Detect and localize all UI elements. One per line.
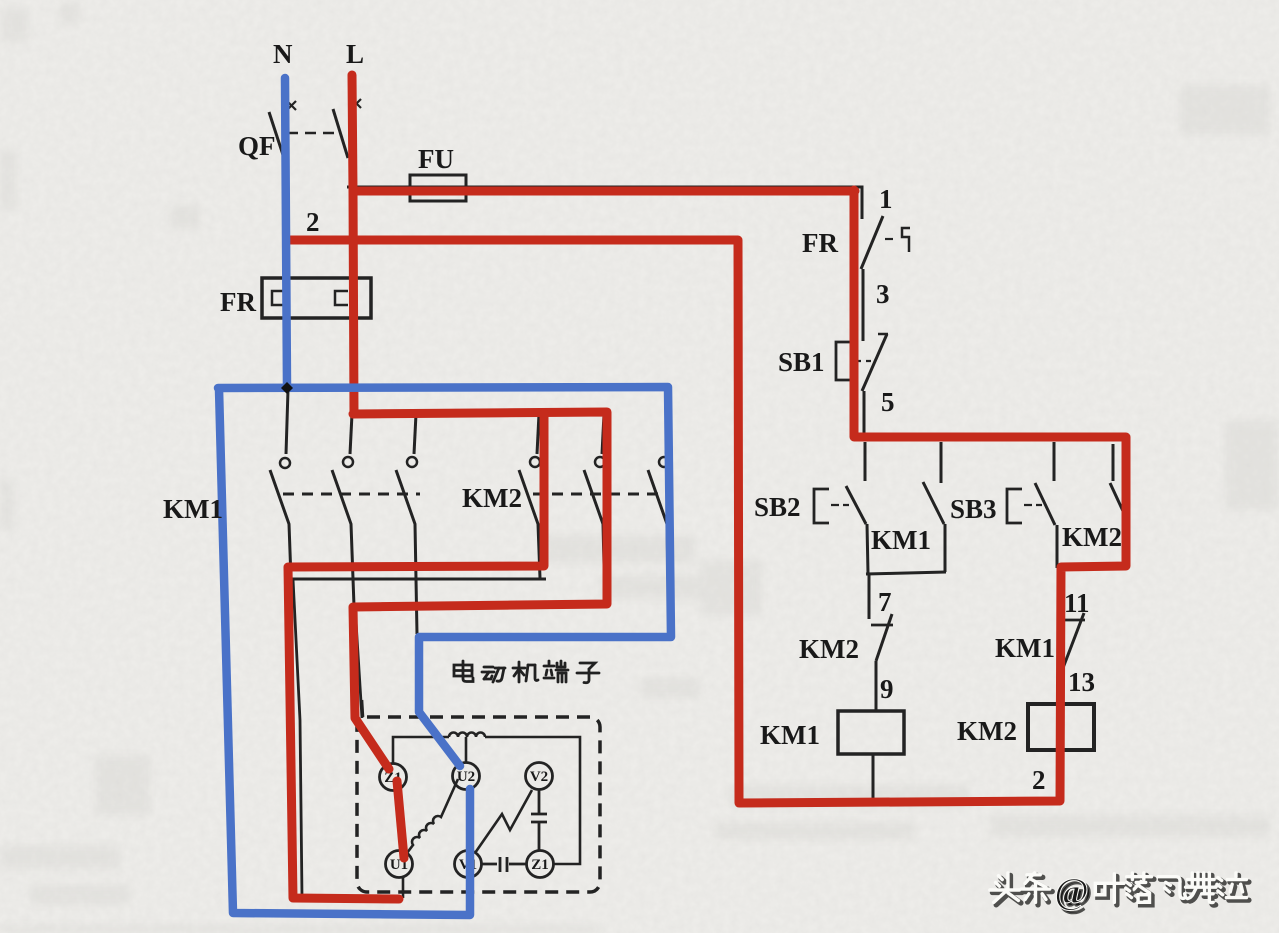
svg-text:9: 9 (880, 674, 894, 704)
svg-text:KM2: KM2 (957, 716, 1017, 746)
svg-text:QF: QF (238, 131, 276, 161)
svg-text:KM1: KM1 (760, 720, 820, 750)
svg-text:3: 3 (876, 279, 890, 309)
svg-text:KM2: KM2 (799, 634, 859, 664)
svg-text:2: 2 (1032, 765, 1046, 795)
svg-text:5: 5 (881, 387, 895, 417)
svg-text:KM2: KM2 (1062, 522, 1122, 552)
svg-text:SB1: SB1 (778, 347, 825, 377)
svg-text:2: 2 (306, 207, 320, 237)
svg-text:U2: U2 (457, 769, 475, 785)
svg-text:@: @ (1055, 872, 1089, 913)
svg-text:KM1: KM1 (163, 494, 223, 524)
svg-text:1: 1 (879, 184, 893, 214)
svg-text:SB2: SB2 (754, 492, 801, 522)
svg-text:KM1: KM1 (995, 633, 1055, 663)
svg-text:KM2: KM2 (462, 483, 522, 513)
svg-text:KM1: KM1 (871, 525, 931, 555)
svg-text:N: N (273, 39, 293, 69)
svg-text:13: 13 (1068, 667, 1095, 697)
svg-text:L: L (346, 39, 364, 69)
svg-text:Z1: Z1 (531, 857, 549, 873)
svg-text:FR: FR (220, 287, 256, 317)
svg-text:11: 11 (1064, 588, 1090, 618)
svg-text:FR: FR (802, 228, 838, 258)
svg-text:SB3: SB3 (950, 494, 997, 524)
svg-text:V2: V2 (530, 769, 548, 785)
svg-text:FU: FU (418, 144, 454, 174)
svg-text:7: 7 (878, 587, 892, 617)
